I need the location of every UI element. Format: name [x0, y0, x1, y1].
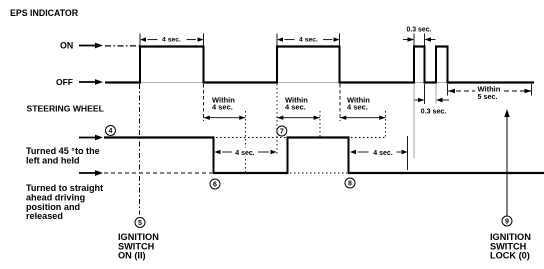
- svg-text:4 sec.: 4 sec.: [162, 36, 181, 43]
- svg-text:4 sec.: 4 sec.: [347, 103, 368, 112]
- svg-text:left and held: left and held: [26, 155, 80, 165]
- svg-text:0.3 sec.: 0.3 sec.: [421, 107, 447, 115]
- svg-text:LOCK (0): LOCK (0): [490, 251, 530, 261]
- svg-text:STEERING WHEEL: STEERING WHEEL: [27, 104, 104, 114]
- svg-text:released: released: [26, 211, 63, 221]
- svg-text:4: 4: [109, 128, 113, 135]
- svg-text:7: 7: [280, 129, 284, 136]
- svg-text:EPS INDICATOR: EPS INDICATOR: [10, 8, 79, 18]
- svg-text:4 sec.: 4 sec.: [212, 103, 233, 112]
- svg-text:ON (II): ON (II): [118, 251, 146, 261]
- svg-text:4 sec.: 4 sec.: [373, 150, 393, 157]
- svg-text:6: 6: [213, 182, 217, 189]
- svg-text:ON: ON: [60, 40, 73, 50]
- svg-text:9: 9: [505, 219, 509, 226]
- svg-text:0.3 sec.: 0.3 sec.: [407, 27, 432, 34]
- svg-text:5: 5: [138, 220, 142, 227]
- svg-text:8: 8: [348, 181, 352, 188]
- svg-text:5 sec.: 5 sec.: [478, 92, 498, 101]
- svg-text:4 sec.: 4 sec.: [235, 150, 255, 157]
- svg-text:OFF: OFF: [56, 77, 73, 87]
- svg-text:4 sec.: 4 sec.: [299, 36, 318, 43]
- svg-text:4 sec.: 4 sec.: [285, 103, 306, 112]
